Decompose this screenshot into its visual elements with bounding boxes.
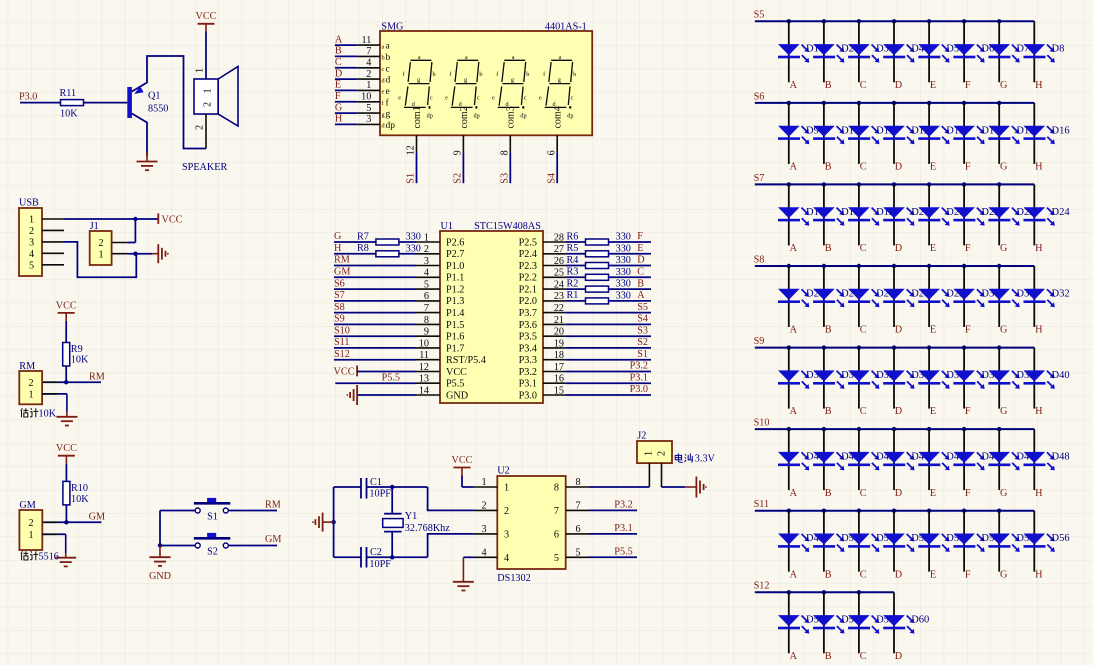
svg-text:1: 1	[29, 215, 34, 226]
svg-text:G: G	[1000, 406, 1008, 417]
svg-text:17: 17	[554, 362, 564, 373]
svg-text:com2: com2	[459, 106, 470, 128]
svg-text:S1: S1	[406, 173, 417, 184]
svg-text:7: 7	[575, 500, 580, 511]
svg-text:F: F	[637, 231, 643, 242]
svg-text:14: 14	[419, 385, 429, 396]
svg-text:G: G	[1000, 325, 1008, 336]
svg-text:dp: dp	[520, 113, 526, 120]
svg-text:S4: S4	[637, 314, 648, 325]
svg-text:P5.5: P5.5	[382, 372, 400, 383]
svg-text:SPEAKER: SPEAKER	[182, 162, 227, 173]
svg-text:24: 24	[554, 280, 564, 291]
svg-text:330: 330	[616, 232, 631, 243]
svg-text:S2: S2	[453, 173, 464, 184]
svg-text:S7: S7	[754, 173, 765, 184]
svg-text:1: 1	[504, 483, 509, 494]
svg-text:P2.0: P2.0	[519, 296, 537, 307]
svg-text:VCC: VCC	[162, 215, 183, 226]
svg-text:H: H	[1035, 325, 1043, 336]
svg-text:H: H	[1035, 406, 1043, 417]
svg-text:P3.1: P3.1	[630, 372, 648, 383]
svg-text:E: E	[930, 80, 936, 91]
svg-text:E: E	[930, 406, 936, 417]
svg-text:E: E	[335, 80, 341, 91]
svg-text:H: H	[1035, 569, 1043, 580]
svg-text:E: E	[637, 243, 643, 254]
svg-text:com3: com3	[506, 106, 517, 128]
svg-text:2: 2	[195, 125, 206, 130]
svg-text:P3.2: P3.2	[614, 500, 632, 511]
svg-text:F: F	[965, 243, 971, 254]
svg-text:A: A	[790, 162, 798, 173]
svg-text:1: 1	[424, 232, 429, 243]
svg-text:E: E	[930, 162, 936, 173]
svg-text:D: D	[895, 651, 902, 662]
svg-text:b: b	[573, 71, 576, 78]
svg-text:8: 8	[424, 315, 429, 326]
svg-text:3: 3	[366, 114, 371, 125]
svg-text:S11: S11	[754, 499, 769, 510]
svg-text:S6: S6	[754, 91, 765, 102]
svg-text:6: 6	[575, 524, 580, 535]
svg-text:8: 8	[554, 483, 559, 494]
svg-text:2: 2	[28, 518, 33, 529]
svg-text:5: 5	[424, 280, 429, 291]
svg-text:10K: 10K	[39, 408, 57, 419]
svg-text:D: D	[895, 569, 902, 580]
svg-text:g: g	[386, 110, 391, 120]
svg-text:10K: 10K	[71, 355, 89, 366]
svg-text:15: 15	[554, 385, 564, 396]
svg-text:RM: RM	[89, 371, 105, 382]
svg-text:com4: com4	[553, 106, 564, 128]
svg-text:S9: S9	[754, 336, 765, 347]
svg-text:1: 1	[644, 451, 655, 456]
svg-text:S1: S1	[637, 349, 648, 360]
svg-text:J2: J2	[637, 430, 646, 441]
svg-text:D16: D16	[1052, 125, 1070, 136]
svg-text:A: A	[790, 243, 798, 254]
svg-text:330: 330	[616, 243, 631, 254]
svg-text:C: C	[860, 162, 867, 173]
svg-text:A: A	[790, 80, 798, 91]
svg-text:F: F	[335, 91, 341, 102]
svg-text:10K: 10K	[60, 109, 78, 120]
svg-text:C: C	[860, 569, 867, 580]
svg-text:C: C	[860, 243, 867, 254]
svg-text:11: 11	[361, 35, 371, 46]
svg-text:5: 5	[29, 260, 34, 271]
svg-text:e: e	[382, 89, 385, 96]
svg-text:Q1: Q1	[148, 90, 160, 101]
svg-text:6: 6	[424, 291, 429, 302]
svg-text:C: C	[860, 406, 867, 417]
svg-text:P2.6: P2.6	[446, 237, 464, 248]
svg-text:S10: S10	[754, 418, 770, 429]
svg-text:P2.3: P2.3	[519, 261, 537, 272]
svg-text:c: c	[430, 95, 433, 102]
svg-text:8550: 8550	[148, 103, 168, 114]
svg-text:S2: S2	[207, 546, 218, 557]
svg-text:a: a	[418, 54, 421, 61]
svg-text:330: 330	[616, 279, 631, 290]
svg-text:18: 18	[554, 350, 564, 361]
svg-text:D48: D48	[1052, 452, 1070, 463]
svg-text:c: c	[386, 64, 390, 74]
svg-text:R7: R7	[357, 231, 369, 242]
svg-text:6: 6	[546, 150, 557, 155]
svg-text:C: C	[860, 488, 867, 499]
svg-text:S11: S11	[334, 337, 349, 348]
svg-text:2: 2	[203, 102, 214, 107]
svg-text:13: 13	[419, 374, 429, 385]
svg-text:27: 27	[554, 244, 564, 255]
svg-text:dp: dp	[474, 113, 480, 120]
svg-text:b: b	[386, 53, 391, 63]
svg-text:g: g	[511, 77, 514, 84]
svg-text:b: b	[479, 71, 482, 78]
svg-text:16: 16	[554, 374, 564, 385]
svg-text:S5: S5	[754, 10, 765, 21]
svg-text:H: H	[1035, 488, 1043, 499]
svg-text:5: 5	[575, 547, 580, 558]
svg-text:D: D	[637, 255, 644, 266]
svg-text:USB: USB	[19, 197, 39, 208]
svg-text:22: 22	[554, 303, 564, 314]
svg-text:G: G	[1000, 162, 1008, 173]
svg-text:5: 5	[366, 103, 371, 114]
svg-text:5516: 5516	[39, 551, 59, 562]
svg-text:11: 11	[419, 350, 429, 361]
svg-text:P2.5: P2.5	[519, 237, 537, 248]
svg-text:2: 2	[424, 244, 429, 255]
svg-text:1: 1	[366, 80, 371, 91]
svg-text:9: 9	[453, 150, 464, 155]
svg-text:P5.5: P5.5	[446, 379, 464, 390]
svg-text:32.768Khz: 32.768Khz	[405, 523, 450, 534]
svg-text:S1: S1	[207, 511, 218, 522]
svg-text:A: A	[790, 651, 798, 662]
svg-text:GM: GM	[89, 512, 105, 523]
svg-text:8: 8	[500, 150, 511, 155]
svg-text:P1.3: P1.3	[446, 296, 464, 307]
svg-text:P3.3: P3.3	[519, 355, 537, 366]
svg-text:a: a	[559, 54, 562, 61]
svg-text:20: 20	[554, 327, 564, 338]
svg-text:P2.1: P2.1	[519, 285, 537, 296]
svg-text:F: F	[965, 488, 971, 499]
svg-text:DS1302: DS1302	[497, 573, 530, 584]
svg-text:b: b	[432, 71, 435, 78]
svg-text:B: B	[825, 162, 832, 173]
svg-text:4: 4	[424, 268, 429, 279]
svg-text:H: H	[334, 243, 342, 254]
svg-text:E: E	[930, 569, 936, 580]
svg-text:g: g	[558, 77, 561, 84]
svg-text:c: c	[571, 95, 574, 102]
svg-text:P1.5: P1.5	[446, 320, 464, 331]
svg-text:D: D	[895, 488, 902, 499]
svg-text:P3.2: P3.2	[519, 367, 537, 378]
svg-text:R10: R10	[71, 483, 88, 494]
svg-text:G: G	[335, 102, 343, 113]
svg-text:G: G	[1000, 243, 1008, 254]
svg-text:D: D	[335, 68, 342, 79]
svg-text:C: C	[860, 325, 867, 336]
svg-text:F: F	[965, 569, 971, 580]
svg-text:1: 1	[28, 390, 33, 401]
svg-text:330: 330	[616, 291, 631, 302]
svg-text:S10: S10	[334, 325, 350, 336]
svg-text:e: e	[398, 95, 401, 102]
svg-text:F: F	[965, 162, 971, 173]
svg-text:P3.2: P3.2	[630, 361, 648, 372]
svg-text:4: 4	[481, 547, 486, 558]
svg-text:RM: RM	[265, 499, 281, 510]
svg-text:10PF: 10PF	[369, 559, 391, 570]
svg-text:8: 8	[575, 477, 580, 488]
svg-text:P1.7: P1.7	[446, 343, 464, 354]
svg-text:4: 4	[29, 249, 34, 260]
svg-text:12: 12	[406, 145, 417, 155]
svg-text:S6: S6	[334, 278, 345, 289]
svg-text:b: b	[382, 55, 385, 62]
svg-text:R2: R2	[567, 279, 579, 290]
svg-text:2: 2	[98, 238, 103, 249]
svg-text:GND: GND	[149, 571, 171, 582]
svg-text:330: 330	[406, 232, 421, 243]
svg-text:D: D	[895, 80, 902, 91]
svg-text:P2.7: P2.7	[446, 249, 464, 260]
svg-text:B: B	[825, 651, 832, 662]
svg-text:P3.6: P3.6	[519, 320, 537, 331]
svg-text:c: c	[382, 66, 385, 73]
svg-text:g: g	[464, 77, 467, 84]
svg-text:d: d	[386, 76, 391, 86]
svg-text:A: A	[790, 488, 798, 499]
svg-text:6: 6	[554, 530, 559, 541]
svg-text:9: 9	[424, 327, 429, 338]
svg-text:R8: R8	[357, 243, 369, 254]
svg-text:G: G	[1000, 488, 1008, 499]
svg-text:P1.0: P1.0	[446, 261, 464, 272]
svg-text:P3.7: P3.7	[519, 308, 537, 319]
svg-text:D8: D8	[1052, 44, 1065, 55]
svg-text:dp: dp	[386, 121, 396, 131]
svg-text:S7: S7	[334, 290, 345, 301]
svg-text:P3.1: P3.1	[519, 379, 537, 390]
svg-text:F: F	[965, 406, 971, 417]
svg-text:P3.4: P3.4	[519, 343, 537, 354]
svg-text:H: H	[1035, 243, 1043, 254]
svg-text:R4: R4	[567, 255, 579, 266]
svg-text:R3: R3	[567, 267, 579, 278]
svg-text:D: D	[895, 162, 902, 173]
svg-text:25: 25	[554, 268, 564, 279]
svg-text:1: 1	[98, 249, 103, 260]
svg-text:S8: S8	[754, 254, 765, 265]
svg-text:P1.1: P1.1	[446, 273, 464, 284]
svg-text:28: 28	[554, 232, 564, 243]
svg-text:C: C	[637, 267, 644, 278]
svg-text:E: E	[930, 243, 936, 254]
svg-text:B: B	[825, 569, 832, 580]
svg-text:P2.2: P2.2	[519, 273, 537, 284]
svg-text:S8: S8	[334, 302, 345, 313]
svg-text:A: A	[790, 325, 798, 336]
svg-text:VCC: VCC	[334, 367, 355, 378]
svg-text:C: C	[860, 80, 867, 91]
svg-text:B: B	[825, 243, 832, 254]
svg-text:S4: S4	[546, 173, 557, 184]
svg-text:2: 2	[657, 451, 668, 456]
svg-text:c: c	[524, 95, 527, 102]
svg-text:7: 7	[554, 506, 559, 517]
svg-text:D: D	[895, 243, 902, 254]
svg-text:S12: S12	[754, 581, 770, 592]
svg-text:A: A	[637, 290, 645, 301]
svg-text:H: H	[1035, 80, 1043, 91]
svg-text:4: 4	[504, 553, 509, 564]
svg-text:23: 23	[554, 291, 564, 302]
svg-text:C: C	[335, 57, 342, 68]
svg-text:G: G	[334, 231, 342, 242]
svg-text:7: 7	[366, 46, 371, 57]
svg-text:B: B	[335, 46, 342, 57]
svg-text:3: 3	[504, 530, 509, 541]
svg-text:12: 12	[419, 362, 429, 373]
svg-text:GM: GM	[334, 267, 350, 278]
svg-text:F: F	[965, 325, 971, 336]
svg-text:21: 21	[554, 315, 564, 326]
svg-text:10: 10	[419, 338, 429, 349]
svg-text:GND: GND	[446, 390, 468, 401]
svg-text:E: E	[930, 488, 936, 499]
svg-text:D: D	[895, 325, 902, 336]
svg-text:P2.4: P2.4	[519, 249, 537, 260]
svg-text:e: e	[492, 95, 495, 102]
svg-text:P1.2: P1.2	[446, 285, 464, 296]
svg-text:7: 7	[424, 303, 429, 314]
svg-text:A: A	[790, 406, 798, 417]
svg-text:B: B	[825, 406, 832, 417]
svg-text:330: 330	[406, 243, 421, 254]
svg-text:26: 26	[554, 256, 564, 267]
svg-text:330: 330	[616, 267, 631, 278]
svg-text:E: E	[930, 325, 936, 336]
svg-text:S3: S3	[637, 325, 648, 336]
svg-text:VCC: VCC	[196, 11, 217, 22]
svg-text:F: F	[965, 80, 971, 91]
svg-text:2: 2	[29, 226, 34, 237]
svg-text:e: e	[386, 87, 390, 97]
svg-text:C: C	[860, 651, 867, 662]
svg-text:a: a	[465, 54, 468, 61]
svg-text:10K: 10K	[71, 494, 89, 505]
svg-text:B: B	[825, 325, 832, 336]
svg-text:VCC: VCC	[446, 367, 467, 378]
svg-text:3: 3	[481, 524, 486, 535]
svg-text:D32: D32	[1052, 288, 1070, 299]
svg-text:R11: R11	[60, 88, 77, 99]
svg-text:5: 5	[554, 553, 559, 564]
svg-text:R6: R6	[567, 231, 579, 242]
svg-text:a: a	[382, 43, 385, 50]
svg-text:1: 1	[481, 477, 486, 488]
svg-text:2: 2	[366, 69, 371, 80]
svg-text:g: g	[417, 77, 420, 84]
svg-text:e: e	[539, 95, 542, 102]
svg-text:P3.5: P3.5	[519, 332, 537, 343]
svg-text:S9: S9	[334, 314, 345, 325]
svg-text:S12: S12	[334, 349, 350, 360]
svg-text:Y1: Y1	[405, 511, 417, 522]
svg-text:1: 1	[195, 68, 206, 73]
svg-text:330: 330	[616, 255, 631, 266]
svg-text:VCC: VCC	[452, 455, 473, 466]
svg-text:1: 1	[203, 88, 214, 93]
svg-text:P1.4: P1.4	[446, 308, 464, 319]
svg-text:A: A	[335, 34, 343, 45]
svg-text:RM: RM	[334, 255, 350, 266]
svg-text:4: 4	[366, 58, 371, 69]
svg-text:R1: R1	[567, 290, 579, 301]
svg-text:e: e	[445, 95, 448, 102]
svg-text:P3.0: P3.0	[519, 390, 537, 401]
svg-text:G: G	[1000, 569, 1008, 580]
svg-text:3: 3	[424, 256, 429, 267]
svg-text:B: B	[637, 278, 644, 289]
svg-text:3.3V: 3.3V	[695, 454, 716, 465]
svg-text:c: c	[477, 95, 480, 102]
svg-text:RST/P5.4: RST/P5.4	[446, 355, 486, 366]
svg-text:3: 3	[29, 238, 34, 249]
svg-text:P1.6: P1.6	[446, 332, 464, 343]
svg-text:P3.0: P3.0	[630, 384, 648, 395]
svg-text:2: 2	[504, 506, 509, 517]
svg-text:VCC: VCC	[56, 443, 77, 454]
svg-text:G: G	[1000, 80, 1008, 91]
svg-text:D56: D56	[1052, 533, 1070, 544]
svg-text:H: H	[1035, 162, 1043, 173]
svg-text:B: B	[825, 488, 832, 499]
svg-text:P3.1: P3.1	[614, 523, 632, 534]
svg-text:P5.5: P5.5	[614, 547, 632, 558]
svg-text:2: 2	[481, 500, 486, 511]
svg-text:10: 10	[361, 92, 371, 103]
svg-text:19: 19	[554, 338, 564, 349]
svg-text:a: a	[512, 54, 515, 61]
svg-text:GM: GM	[265, 534, 281, 545]
svg-text:dp: dp	[567, 113, 573, 120]
svg-text:S5: S5	[637, 302, 648, 313]
svg-text:dp: dp	[427, 113, 433, 120]
svg-text:U2: U2	[497, 465, 509, 476]
svg-text:g: g	[382, 111, 385, 118]
svg-text:D24: D24	[1052, 207, 1071, 218]
svg-text:10PF: 10PF	[369, 488, 391, 499]
svg-text:R5: R5	[567, 243, 579, 254]
svg-text:1: 1	[28, 530, 33, 541]
svg-text:D: D	[895, 406, 902, 417]
svg-text:D60: D60	[911, 615, 929, 626]
svg-text:S3: S3	[500, 173, 511, 184]
svg-text:2: 2	[28, 378, 33, 389]
svg-text:VCC: VCC	[56, 300, 77, 311]
svg-text:H: H	[335, 114, 343, 125]
svg-text:S2: S2	[637, 337, 648, 348]
